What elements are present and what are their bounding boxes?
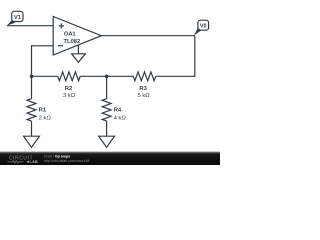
logo squiggle bbox=[8, 161, 24, 163]
svg-text:http://circuitlab.com/cxke448: http://circuitlab.com/cxke448 bbox=[44, 159, 89, 163]
wire output bbox=[101, 35, 195, 37]
wire V1 to op-amp + input bbox=[7, 25, 53, 27]
wire feedback vertical bbox=[31, 45, 33, 76]
svg-text:OA1: OA1 bbox=[64, 31, 76, 37]
wire R1 branch bbox=[31, 76, 33, 98]
svg-text:R1: R1 bbox=[39, 108, 47, 114]
wire middle center bbox=[80, 75, 133, 77]
junction node B bbox=[30, 75, 34, 79]
svg-text:Draft / Op amps: Draft / Op amps bbox=[44, 154, 70, 158]
wire middle right bbox=[156, 75, 195, 77]
wire middle left bbox=[32, 75, 58, 77]
resistor R4 bbox=[102, 99, 111, 121]
svg-text:TL082: TL082 bbox=[64, 39, 81, 45]
ground at op-amp bbox=[72, 45, 86, 62]
svg-text:R4: R4 bbox=[114, 108, 122, 114]
wire op-amp - input bbox=[32, 45, 54, 47]
svg-text:V0: V0 bbox=[200, 24, 207, 30]
watermark banner bbox=[0, 151, 220, 165]
op-amp OA1 triangle bbox=[53, 17, 101, 56]
wire R4 to ground bbox=[106, 121, 108, 136]
svg-text:5 kΩ: 5 kΩ bbox=[137, 93, 150, 99]
node flag V1 bbox=[7, 11, 23, 25]
svg-text:4 kΩ: 4 kΩ bbox=[114, 115, 127, 121]
wire output down bbox=[194, 36, 196, 77]
svg-text:◄LAB: ◄LAB bbox=[26, 159, 38, 164]
svg-text:2 kΩ: 2 kΩ bbox=[39, 115, 52, 121]
svg-text:R3: R3 bbox=[139, 86, 147, 92]
resistor R1 bbox=[27, 99, 36, 121]
ground below R4 bbox=[99, 136, 115, 147]
svg-text:3 kΩ: 3 kΩ bbox=[63, 93, 76, 99]
wire R1 to ground bbox=[31, 121, 33, 136]
op-amp plus input symbol bbox=[59, 23, 64, 28]
svg-text:V1: V1 bbox=[14, 15, 21, 21]
resistor R3 bbox=[133, 72, 155, 81]
node flag V0 bbox=[194, 20, 209, 35]
junction node A bbox=[105, 75, 109, 79]
resistor R2 bbox=[58, 72, 80, 81]
ground below R1 bbox=[24, 136, 40, 147]
wire R4 branch bbox=[106, 76, 108, 98]
op-amp minus input symbol bbox=[58, 45, 63, 47]
svg-text:R2: R2 bbox=[65, 86, 73, 92]
